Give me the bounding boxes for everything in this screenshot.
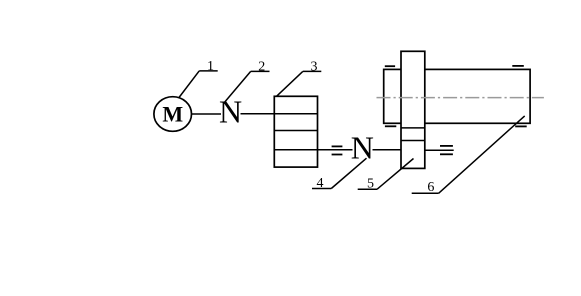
svg-text:M: M: [162, 101, 183, 126]
svg-text:3: 3: [311, 60, 318, 75]
gearbox divider 1: [274, 113, 317, 115]
leader line for label 3: [277, 71, 303, 96]
gearbox divider 3: [274, 149, 317, 151]
bearing dash bottom-left of drum: [385, 125, 396, 127]
bearing dash top-right of drum: [512, 65, 524, 67]
bearing block divider 2: [401, 140, 425, 142]
support mark pair (left, at gearbox output shaft): [332, 145, 343, 147]
wire: gearbox output to coupling 4: [318, 149, 353, 151]
svg-text:5: 5: [367, 176, 374, 191]
drum center line (dash-dot axis): [377, 97, 544, 99]
wire: motor to coupling 2: [192, 113, 222, 115]
svg-text:2: 2: [258, 60, 265, 75]
gearbox divider 2: [274, 130, 317, 132]
drum 6 (roller body): [384, 69, 530, 123]
leader line for label 5: [377, 159, 414, 190]
leader line for label 2: [224, 71, 251, 103]
label 6 tick: [412, 192, 439, 194]
label 2 tick: [251, 70, 270, 72]
support mark pair (right anchor): [440, 145, 453, 147]
gearbox 3 (reducer box): [274, 96, 317, 167]
svg-text:6: 6: [427, 180, 434, 195]
label 4 tick: [312, 188, 331, 190]
svg-text:N: N: [351, 130, 374, 166]
wire: coupling 2 to gearbox: [241, 113, 275, 115]
motor M1 (electric motor circle): [154, 97, 192, 132]
bearing dash bottom-right of drum: [515, 125, 527, 127]
svg-text:1: 1: [207, 59, 214, 74]
bearing block divider 1: [401, 127, 425, 129]
label 3 tick: [303, 70, 322, 72]
leader line for label 4: [331, 158, 366, 188]
bearing dash top-left of drum: [385, 65, 395, 67]
leader line for label 6: [439, 116, 525, 193]
bearing block 5 (tall narrow rect over drum): [401, 51, 425, 168]
wire: coupling 4 to drum bearing block: [373, 149, 402, 151]
label 5 tick: [358, 188, 377, 190]
svg-text:4: 4: [317, 176, 324, 191]
leader line for label 1: [179, 71, 199, 98]
svg-text:N: N: [219, 94, 242, 130]
wire: bearing block to right anchor: [425, 149, 454, 151]
label 1 tick: [199, 70, 218, 72]
